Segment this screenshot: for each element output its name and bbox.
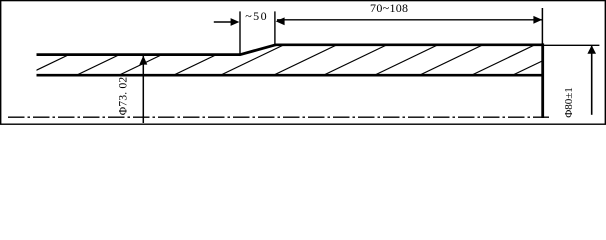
leader stub of ~50 dimension [214, 21, 232, 23]
right end face line [541, 43, 544, 118]
tapered transition line [240, 45, 276, 55]
extension line right of 70~108 [541, 8, 543, 44]
arrowhead ~50 left [231, 18, 240, 26]
inner bore line [37, 74, 544, 77]
centerline (dash-dot axis) [8, 116, 549, 118]
arrowhead phi73.02 [139, 56, 147, 65]
outer surface line, small-diameter left section [37, 53, 241, 56]
drawing border frame [1, 1, 606, 125]
arrowhead phi80 [587, 45, 596, 54]
extension line left of ~50 [239, 11, 241, 55]
outer surface line, large-diameter right section [275, 43, 544, 46]
arrowhead 70~108 right [533, 16, 542, 24]
svg-text:~50: ~50 [245, 9, 268, 23]
section hatching of tube wall [20, 42, 582, 78]
diameter leader line phi80 [591, 46, 593, 115]
svg-text:Φ73. 02: Φ73. 02 [117, 77, 129, 116]
extension line of phi80 at outer surface [544, 44, 600, 46]
diameter leader line phi73.02 [142, 56, 144, 123]
arrowhead ~50 right [276, 17, 285, 25]
svg-text:Φ80±1: Φ80±1 [563, 87, 575, 118]
svg-text:70~108: 70~108 [370, 1, 408, 15]
dimension line 70~108 [277, 19, 542, 21]
extension line right of ~50 [274, 11, 276, 45]
